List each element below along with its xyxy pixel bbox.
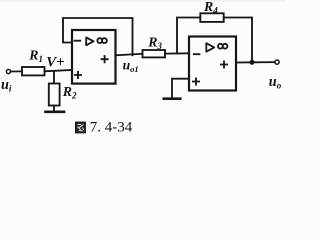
op-amp U1 (72, 30, 116, 84)
svg-text:R1: R1 (28, 48, 43, 65)
svg-text:R3: R3 (147, 34, 162, 51)
input terminal ui (6, 69, 10, 73)
svg-text:R4: R4 (203, 0, 218, 16)
wire U2 noninverting input to ground (172, 79, 189, 98)
output terminal uo (275, 60, 279, 64)
op-amp U2 (189, 37, 236, 91)
svg-text:7. 4-34: 7. 4-34 (90, 120, 133, 136)
wire R2 to ground (53, 106, 55, 112)
wire U2 output to terminal (236, 61, 275, 63)
svg-text:R2: R2 (62, 84, 77, 101)
faint scan edge at top (0, 0, 286, 2)
ground (U2 noninverting) (164, 97, 181, 100)
ground (below R2) (46, 111, 65, 114)
node output junction (250, 60, 255, 65)
resistor R2 (49, 84, 60, 106)
wire R1 to op-amp U1 noninverting input (45, 70, 73, 71)
caption glyph (figure) (76, 122, 86, 132)
wire R3 to U2 inverting input (165, 52, 189, 54)
wire R4 to output node (224, 18, 252, 63)
wire node up to R4 (177, 18, 200, 54)
svg-text:V+: V+ (46, 55, 64, 71)
wire node V+ down to R2 (53, 71, 55, 83)
wire input to R1 (11, 70, 22, 72)
svg-text:uo: uo (269, 74, 282, 91)
resistor R4 (200, 13, 223, 22)
wire U1 output to R3 (116, 54, 143, 56)
wire feedback U1 output to inverting input (63, 18, 133, 55)
resistor R3 (143, 50, 166, 57)
svg-text:uo1: uo1 (123, 57, 139, 74)
svg-text:ui: ui (1, 77, 12, 94)
resistor R1 (22, 67, 45, 75)
